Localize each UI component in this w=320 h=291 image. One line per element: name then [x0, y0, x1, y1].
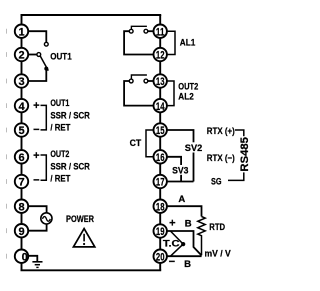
svg-text:SSR / SCR: SSR / SCR — [50, 161, 90, 172]
svg-text:9: 9 — [18, 226, 24, 238]
wire terminal 9 to AC source — [27, 224, 47, 230]
wire bottom border — [21, 269, 162, 271]
terminal 18 — [154, 200, 167, 214]
wire terminal 2 to pivot contact — [27, 53, 41, 57]
svg-text:SSR / SCR: SSR / SCR — [50, 110, 90, 121]
svg-text:OUT1: OUT1 — [50, 51, 72, 62]
label SV2 — [184, 142, 203, 154]
terminal 2 — [15, 48, 28, 62]
svg-text:−: − — [33, 124, 39, 136]
svg-text:0: 0 — [22, 252, 28, 264]
wire top border — [21, 14, 162, 16]
relay contact AL1 — [124, 26, 154, 54]
relay contact AL2 — [124, 75, 154, 106]
terminal 4 — [15, 99, 28, 113]
terminal 7 — [15, 175, 28, 189]
bracket terminals 6-7 — [41, 155, 47, 180]
svg-text:6: 6 — [18, 152, 24, 164]
warning triangle — [73, 229, 94, 247]
resistor RTD — [198, 217, 205, 256]
terminal 10 — [15, 250, 28, 264]
wire right terminal bus — [159, 15, 161, 270]
svg-text:B: B — [184, 259, 191, 270]
terminal 5 — [15, 123, 28, 137]
terminal 16 — [154, 150, 167, 164]
svg-text:AL1: AL1 — [180, 38, 196, 49]
terminal 12 — [154, 48, 167, 62]
terminal 11 — [154, 25, 167, 39]
terminal 9 — [15, 224, 28, 238]
svg-text:/ RET: / RET — [50, 123, 70, 134]
terminal 15 — [154, 123, 167, 137]
svg-text:/ RET: / RET — [50, 174, 70, 185]
svg-text:2: 2 — [18, 50, 24, 62]
svg-text:SV3: SV3 — [172, 166, 188, 177]
svg-text:3: 3 — [18, 76, 24, 88]
terminal 14 — [154, 99, 167, 113]
svg-text:13: 13 — [156, 76, 165, 88]
svg-text:RTX (+): RTX (+) — [207, 126, 235, 137]
svg-text:B: B — [185, 219, 192, 230]
thermocouple T.C leads — [170, 231, 183, 256]
terminal 3 — [15, 74, 28, 88]
label OUT2 SSR/SCR /RET — [50, 149, 90, 185]
fold mark dashes left edge — [6, 29, 8, 259]
svg-text:15: 15 — [156, 125, 165, 137]
wire terminal 3 to NO contact — [27, 70, 46, 81]
svg-text:11: 11 — [156, 26, 165, 38]
terminal 8 — [15, 200, 28, 214]
svg-text:−: − — [169, 256, 175, 268]
svg-text:SG: SG — [211, 176, 222, 187]
wire SV2 terminal 15 — [166, 130, 194, 182]
svg-text:+: + — [33, 100, 39, 112]
AC source symbol POWER — [41, 213, 52, 224]
wire left terminal bus — [21, 15, 23, 270]
switch blade OUT1 relay — [40, 56, 48, 71]
wire terminal 18 to RTD — [166, 206, 202, 216]
svg-text:17: 17 — [156, 177, 165, 189]
svg-text:POWER: POWER — [66, 214, 94, 225]
svg-text:5: 5 — [18, 125, 24, 137]
svg-text:14: 14 — [156, 101, 165, 113]
svg-text:19: 19 — [156, 226, 165, 238]
svg-text:AL2: AL2 — [178, 91, 194, 102]
wire terminal 10 to ground — [27, 256, 37, 262]
label OUT1 SSR/SCR /RET — [50, 98, 90, 134]
svg-text:18: 18 — [156, 201, 165, 213]
bracket RS485 — [228, 130, 250, 180]
bracket CT — [146, 130, 155, 157]
junction dot NO contact — [44, 67, 48, 71]
svg-text:SV2: SV2 — [185, 143, 203, 154]
svg-text:mV / V: mV / V — [205, 248, 232, 259]
terminal 20 — [154, 250, 167, 264]
wire terminal 8 to AC source — [27, 206, 47, 212]
wire terminal 19 B line — [166, 231, 202, 256]
svg-text:RTD: RTD — [209, 222, 225, 233]
svg-text:1: 1 — [18, 26, 24, 38]
svg-text:RTX (−): RTX (−) — [207, 153, 235, 164]
terminal 13 — [154, 74, 167, 88]
svg-text:8: 8 — [18, 201, 24, 213]
svg-text:−: − — [33, 175, 39, 187]
terminal 1 — [15, 25, 28, 39]
svg-text:A: A — [178, 194, 185, 205]
svg-text:OUT2: OUT2 — [50, 149, 69, 160]
terminal 19 — [154, 224, 167, 238]
label SV3 — [172, 165, 190, 177]
svg-text:RS485: RS485 — [239, 137, 250, 172]
bracket terminals 4-5 — [41, 105, 47, 129]
wire terminal 17 — [166, 181, 194, 183]
wire terminal 1 branch to NC contact — [27, 31, 48, 46]
svg-text:+: + — [33, 150, 39, 162]
wire terminal 20 — [166, 255, 202, 257]
svg-text:T.C: T.C — [163, 239, 180, 250]
svg-text:7: 7 — [18, 177, 24, 189]
ground symbol — [32, 262, 42, 268]
svg-text:4: 4 — [18, 101, 25, 113]
svg-text:12: 12 — [156, 50, 165, 62]
terminal 6 — [15, 150, 28, 164]
svg-text:CT: CT — [130, 138, 142, 148]
svg-text:20: 20 — [156, 251, 165, 263]
bracket AL1 — [167, 31, 175, 54]
svg-text:16: 16 — [156, 152, 165, 164]
svg-text:OUT1: OUT1 — [50, 98, 70, 109]
svg-text:+: + — [169, 217, 175, 229]
terminal 17 — [154, 175, 167, 189]
junction dot T.C — [181, 242, 185, 246]
wire SV3 terminal 16 — [166, 157, 181, 182]
bracket OUT2 AL2 — [167, 81, 174, 106]
